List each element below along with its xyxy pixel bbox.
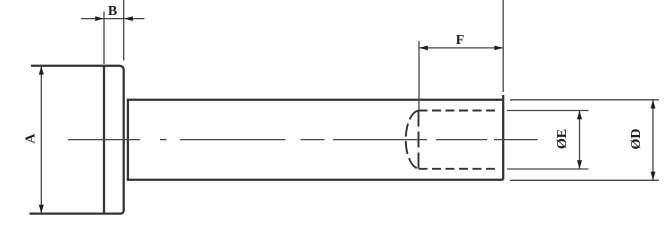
arrow OD bottom <box>651 172 656 181</box>
arrow B left (outside, pointing right) <box>95 16 103 21</box>
hidden bore top (dashed) <box>419 110 498 112</box>
dimension B right extension line <box>123 0 125 61</box>
arrow OE top <box>577 111 582 120</box>
centerline short dash <box>160 139 167 141</box>
arrow A top <box>39 66 44 75</box>
shank bottom edge <box>127 179 503 181</box>
dimension B line <box>81 18 145 20</box>
hidden bore bottom (dashed) <box>419 168 499 170</box>
svg-text:B: B <box>108 4 117 19</box>
centerline segment 4 <box>333 139 427 141</box>
arrow A bottom <box>39 205 44 214</box>
dimension OE line <box>579 111 581 170</box>
dimension B left extension line <box>103 12 105 65</box>
centerline segment 6 <box>494 139 538 141</box>
centerline segment 1 <box>68 139 140 141</box>
centerline segment 5 <box>436 139 487 141</box>
arrow OE bottom <box>577 160 582 169</box>
dimension OE bottom extension line <box>507 168 589 170</box>
head left face <box>103 66 105 214</box>
dimension A line <box>40 66 42 214</box>
arrow OD top <box>651 100 656 109</box>
centerline dash 3 <box>301 139 325 141</box>
arrow B right (outside, pointing left) <box>124 16 132 21</box>
svg-text:ØD: ØD <box>629 129 644 150</box>
shank top edge <box>127 99 503 101</box>
dimension OD bottom extension line <box>510 179 659 181</box>
bore flat bottom (dashed vertical) <box>418 111 420 169</box>
dimension F right extension line <box>502 0 504 92</box>
arrow F right (inside, pointing right) <box>494 46 503 51</box>
drill point conical bottom (dashed arc) <box>406 111 419 169</box>
dimension OD line <box>652 100 654 181</box>
head outline (flange, left end of pin) <box>30 66 124 214</box>
svg-text:A: A <box>24 133 39 144</box>
shank right end face <box>502 95 504 180</box>
dimension F left extension line <box>418 41 420 110</box>
dimension OE top extension line <box>507 110 589 112</box>
arrow F left (inside, pointing left) <box>419 46 428 51</box>
centerline segment 2 <box>180 139 286 141</box>
svg-text:ØE: ØE <box>555 129 570 149</box>
svg-text:F: F <box>456 33 465 48</box>
dimension OD top extension line <box>510 99 659 101</box>
shoulder step line at head/shank junction <box>127 100 129 180</box>
dimension F line <box>419 47 503 49</box>
